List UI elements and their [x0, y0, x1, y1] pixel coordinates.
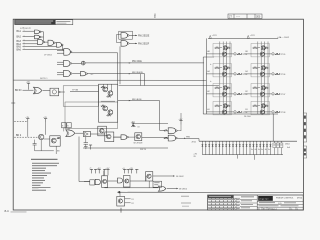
wire into matrix lower [203, 79, 206, 81]
svg-text:+12V: +12V [212, 35, 218, 37]
svg-text:d i g i t a l: d i g i t a l [259, 198, 268, 201]
svg-text:RW 341E: RW 341E [132, 61, 142, 63]
faint notes left of title block [181, 195, 189, 198]
diode D14 [246, 141, 248, 154]
svg-text:A1: A1 [207, 108, 209, 111]
one-shot box U2 [50, 88, 59, 96]
diode D10 [232, 141, 234, 154]
driver box U6 [124, 176, 131, 188]
diode D20 [266, 141, 268, 154]
note line 4 [32, 169, 45, 172]
svg-text:B4: B4 [245, 71, 247, 73]
long wire into G19 [105, 187, 159, 189]
wire cluster1 to cluster2 [108, 180, 118, 182]
svg-text:RW 2E02E: RW 2E02E [138, 35, 150, 37]
driver box U3 [50, 136, 60, 146]
svg-text:2T04: 2T04 [243, 112, 247, 114]
matrix bottom edge [203, 113, 278, 115]
G19 output wire with arrow [167, 188, 176, 190]
diode D4 [212, 141, 214, 154]
diode D19 [263, 141, 265, 154]
wire TP into M2 [70, 91, 99, 93]
small box B5 [153, 181, 162, 187]
buffer G11 [72, 73, 80, 75]
nand gate G16 [168, 135, 175, 141]
svg-text:A8: A8 [207, 50, 209, 53]
revision box top-right above border [228, 14, 262, 18]
wire Q1 to U3 [44, 138, 50, 140]
notes heading [31, 159, 58, 160]
oval gate G19 [158, 186, 166, 191]
center tap below ladder [237, 155, 239, 159]
svg-text:4x: 4x [255, 149, 257, 151]
gate G17 [95, 179, 100, 184]
border frame of drawing sheet [13, 19, 303, 210]
note line 5 [32, 172, 51, 175]
wire M3b to G14 [114, 136, 121, 138]
cell box M3 [98, 126, 107, 136]
junction device J1 [72, 62, 81, 64]
svg-text:3E0: 3E0 [256, 16, 261, 19]
matrix outer left rails [202, 57, 204, 114]
matrix cell row 1 col 2 [251, 44, 269, 57]
svg-text:PUNCH CONTROL: PUNCH CONTROL [276, 198, 294, 200]
svg-text:BA6: BA6 [17, 48, 22, 51]
svg-text:2T06: 2T06 [281, 74, 285, 76]
fold mark bottom center [120, 208, 122, 213]
matrix cell row 2 col 2 [251, 64, 269, 77]
svg-text:BA5: BA5 [17, 45, 22, 48]
note line 1 [32, 162, 59, 165]
wire U7 output right [153, 175, 173, 177]
note line 3 [32, 167, 46, 170]
note sub line [39, 186, 51, 189]
inverter G1 [35, 30, 40, 34]
logo box digital [258, 196, 273, 201]
G16 output wire to ladder [177, 137, 199, 139]
wire U2 to dashed box [60, 91, 65, 93]
diode D18 [259, 141, 261, 154]
right margin vertical strip marks [303, 113, 306, 142]
stub into U5 top [102, 171, 104, 176]
wire M4 output to gate pair [142, 136, 168, 138]
ground wire bottom [35, 150, 54, 152]
wire G11 output right then down [87, 73, 145, 75]
svg-text:+3: +3 [89, 168, 91, 170]
svg-text:RW 2E02E: RW 2E02E [132, 72, 143, 74]
arrow mark G7 [135, 35, 137, 36]
or gate G13 [66, 130, 75, 137]
wire U7 down to oval gate [148, 181, 150, 188]
wire bottom row left [84, 181, 90, 183]
flip-flop box M2 [99, 84, 118, 122]
diode ladder bottom bus [202, 154, 283, 156]
svg-text:4x4: 4x4 [287, 147, 290, 149]
boxed diode labels far right [273, 143, 276, 148]
svg-text:~~~: ~~~ [236, 16, 241, 19]
cell box M4 [135, 133, 142, 141]
matrix column 1 rails [219, 42, 221, 115]
nand gate G8 [121, 41, 128, 47]
vertical wire from U4 area down to bottom row [78, 137, 80, 182]
svg-text:8-4: 8-4 [5, 209, 9, 213]
resistor box B4 [90, 180, 95, 185]
or gate G12 [34, 87, 43, 94]
note line 8 [32, 179, 45, 182]
wire P2 down to BD wire [27, 123, 29, 137]
wire down from RW 4E1E [159, 101, 161, 131]
svg-text:2E02: 2E02 [192, 142, 196, 144]
matrix cell row 3 col 1 [213, 84, 231, 97]
driver box U7 [146, 172, 153, 181]
matrix top bus [208, 37, 278, 39]
wire U8 to bus [119, 192, 121, 196]
vertical wire from matrix bottom to ladder [272, 114, 274, 141]
module box M1a [63, 86, 98, 106]
resistor box R1 [62, 123, 66, 128]
note line 12 [32, 189, 46, 192]
svg-text:1: 1 [297, 209, 298, 211]
title block outline [208, 195, 304, 210]
left border tick [11, 102, 15, 104]
wire into matrix upper [203, 56, 214, 58]
svg-text:4x: 4x [258, 149, 260, 151]
svg-text:BD IN: BD IN [15, 89, 22, 92]
svg-text:A2: A2 [207, 90, 209, 93]
svg-text:BD 2: BD 2 [16, 135, 22, 137]
matrix column 2 rails [257, 42, 259, 115]
wire y123.5 to gate pair [133, 122, 168, 124]
M2 cell 2 transistors [103, 106, 108, 111]
nand gate G15 [168, 128, 175, 134]
svg-text:4x: 4x [265, 149, 267, 151]
diode D5 [215, 141, 217, 154]
junction blob on bus [118, 191, 120, 193]
note line 10 [32, 184, 41, 187]
U8 output stubs [125, 198, 131, 200]
svg-text:RW 2E: RW 2E [140, 149, 147, 151]
diode D8 [225, 141, 227, 154]
wire BD IN to gate [23, 89, 34, 91]
module box M1b [65, 102, 118, 128]
wire U3 down [55, 146, 57, 154]
svg-text:RW 2E02F: RW 2E02F [138, 43, 150, 45]
svg-text:BA2: BA2 [17, 36, 22, 39]
svg-text:4x: 4x [261, 149, 263, 151]
pot box U8 below [117, 196, 125, 206]
wire down to diode bus [198, 139, 200, 142]
svg-text:A4: A4 [207, 70, 209, 73]
svg-text:B2: B2 [245, 91, 247, 93]
diode D11 [235, 141, 237, 154]
revision stamp table top-left [14, 20, 55, 25]
label top right of matrix [280, 37, 282, 38]
svg-text:+ 1E02: + 1E02 [282, 37, 289, 39]
driver box U5 [102, 176, 108, 188]
svg-text:2T03: 2T03 [243, 94, 247, 96]
power +12V arrow mid [247, 35, 249, 38]
diode D3 [208, 141, 210, 154]
matrix cell row 1 col 1 [213, 44, 231, 57]
svg-text:5E 2E02E: 5E 2E02E [133, 142, 143, 144]
stub below bottom bus [253, 155, 255, 160]
svg-text:5E 1E02: 5E 1E02 [176, 176, 185, 178]
svg-text:2T08: 2T08 [281, 112, 285, 114]
svg-text:R1: R1 [131, 199, 133, 201]
power +12V arrow left [209, 35, 211, 38]
long wire y148 [83, 147, 168, 149]
svg-text:M710: M710 [297, 198, 303, 200]
title block parts header dark strip [208, 195, 234, 198]
diode D6 [218, 141, 220, 154]
title block right rows [257, 200, 303, 202]
diode ladder top bus [199, 140, 297, 142]
note line 7 [32, 177, 44, 180]
svg-text:1P 1E02: 1P 1E02 [44, 55, 53, 57]
svg-text:4x: 4x [268, 149, 270, 151]
diode D9 [229, 141, 231, 154]
wire cluster2 to cluster3 [130, 180, 146, 182]
nand gate G7 [121, 33, 128, 39]
wire from G1/G2 down to G3 [43, 32, 45, 42]
svg-text:BA1: BA1 [17, 30, 22, 33]
nand gate G9 [64, 60, 71, 66]
wire G5 output down [62, 45, 64, 50]
inverter box U4 [75, 132, 83, 134]
svg-text:BA4: BA4 [17, 43, 22, 46]
svg-text:2E 1E0: 2E 1E0 [244, 116, 252, 118]
svg-text:NOTE 1: NOTE 1 [40, 78, 48, 80]
diode D15 [249, 141, 251, 154]
svg-text:2T05: 2T05 [281, 54, 285, 56]
diode D1 [201, 141, 203, 154]
svg-text:RW 4E1E: RW 4E1E [132, 99, 142, 101]
nand gate G10 [64, 70, 71, 76]
nand gate G4 [48, 40, 54, 45]
nand gate G6 [64, 49, 70, 56]
grounded capacitor C2 below U4 [85, 137, 87, 143]
buffer gate G14 [121, 135, 127, 140]
cell box M3b [105, 132, 114, 142]
svg-text:BA3: BA3 [17, 40, 22, 43]
matrix cell row 4 col 2 [251, 102, 269, 115]
wire G6 output to right bus [72, 52, 118, 54]
diode D13 [242, 141, 244, 154]
svg-text:4x: 4x [251, 149, 253, 151]
right margin small box lower [303, 146, 306, 158]
long bus wire y80 from left border [14, 79, 204, 81]
capacitor C1 [33, 143, 37, 145]
note line 11 [32, 186, 39, 189]
svg-text:B8: B8 [245, 51, 247, 53]
resistor box R2 [67, 123, 71, 128]
diode D17 [256, 141, 258, 154]
matrix cell row 2 col 1 [213, 64, 231, 77]
matrix cell row 3 col 2 [251, 84, 269, 97]
M2 cell 1 transistors [103, 87, 108, 92]
note line 9 [32, 181, 43, 184]
svg-text:2T07: 2T07 [281, 94, 285, 96]
resistor R6 [164, 130, 168, 132]
svg-text:5C: 5C [91, 74, 94, 76]
note line 2 [32, 164, 57, 167]
svg-text:TP 8B: TP 8B [72, 90, 79, 92]
svg-text:M710-0-1: M710-0-1 [268, 209, 277, 211]
svg-text:a Brandt: a Brandt [20, 26, 31, 30]
wire y85.5 into matrix [119, 85, 219, 87]
drawing number row [261, 207, 263, 210]
wire U4 output to M3 [90, 133, 104, 135]
resistor R7 [164, 137, 168, 139]
long bus wire to right border [117, 191, 303, 193]
wire G8 input from below [119, 46, 121, 84]
title block parts grid [208, 197, 240, 199]
output wire RW 4E1E from M2 [118, 100, 160, 102]
diode D7 [222, 141, 224, 154]
svg-text:+12V: +12V [250, 35, 256, 37]
svg-text:R2: R2 [131, 203, 133, 205]
svg-text:5E 2E02: 5E 2E02 [179, 189, 188, 191]
long wire RW 341E to matrix [85, 62, 204, 64]
matrix cell row 4 col 1 [213, 102, 231, 115]
wire G12 to one-shot [43, 90, 50, 92]
wire down into FF box [117, 53, 119, 84]
dashed input wire upper [14, 120, 28, 122]
diode D12 [239, 141, 241, 154]
svg-text:2T02: 2T02 [243, 74, 247, 76]
svg-text:B1: B1 [245, 109, 247, 111]
nand gate G3 [38, 40, 44, 45]
note line 6 [32, 174, 47, 177]
diode D2 [205, 141, 207, 154]
inverter G2 [35, 35, 40, 39]
box around gate pair B [119, 31, 133, 39]
diode D21 [269, 141, 271, 154]
svg-text:D664: D664 [285, 144, 290, 146]
svg-text:2T01: 2T01 [243, 54, 247, 56]
title block mid column [240, 198, 257, 200]
gate G18 [118, 178, 123, 183]
diode D16 [252, 141, 254, 154]
nand gate G5 [57, 43, 62, 48]
transistor Q1 [39, 134, 44, 139]
